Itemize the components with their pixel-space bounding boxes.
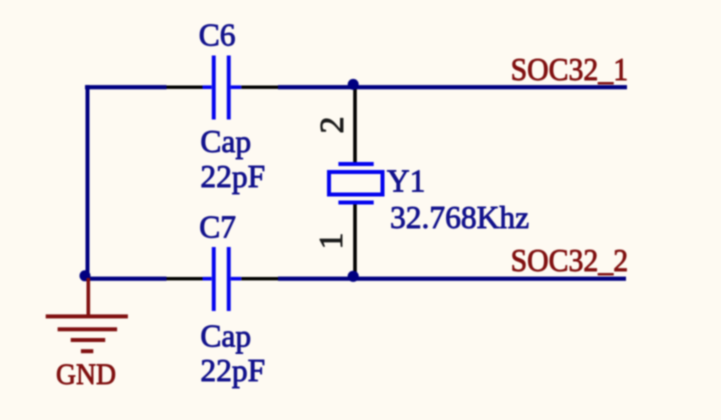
capacitor C6 <box>203 56 242 120</box>
wire top-right (junction to SOC32_1) <box>278 85 627 89</box>
svg-text:SOC32_1: SOC32_1 <box>511 51 628 87</box>
wire bottom-right (junction to SOC32_2) <box>278 277 626 281</box>
junction node top (wire/Y1 pin 2) <box>348 79 359 90</box>
crystal Y1 <box>329 162 383 205</box>
capacitor C6 pin 1 (left black lead) <box>167 86 203 89</box>
junction node bottom (wire/Y1 pin 1) <box>348 271 359 282</box>
svg-text:22pF: 22pF <box>200 353 265 388</box>
wire bottom-left horizontal <box>85 277 167 281</box>
wire top-left horizontal <box>85 85 167 89</box>
crystal Y1 pin 1 (bottom black lead) <box>353 203 357 279</box>
svg-text:C7: C7 <box>199 210 236 245</box>
svg-text:GND: GND <box>56 358 116 391</box>
svg-text:Cap: Cap <box>200 124 251 159</box>
svg-text:Cap: Cap <box>200 319 251 354</box>
crystal Y1 pin 2 (top black lead) <box>353 87 357 164</box>
capacitor C7 pin 1 (left black lead) <box>167 277 203 280</box>
svg-text:SOC32_2: SOC32_2 <box>511 242 628 278</box>
svg-text:Y1: Y1 <box>387 164 426 199</box>
wire left vertical <box>86 85 90 281</box>
ground symbol GND <box>46 278 128 353</box>
junction node left (wire/GND) <box>80 270 91 281</box>
svg-text:1: 1 <box>313 233 350 250</box>
svg-text:2: 2 <box>314 117 351 134</box>
svg-text:C6: C6 <box>199 18 236 53</box>
capacitor C6 pin 2 (right black lead) <box>241 86 278 89</box>
capacitor C7 <box>203 247 242 311</box>
svg-text:22pF: 22pF <box>200 159 265 194</box>
svg-text:32.768Khz: 32.768Khz <box>390 200 529 235</box>
capacitor C7 pin 2 (right black lead) <box>241 277 278 280</box>
